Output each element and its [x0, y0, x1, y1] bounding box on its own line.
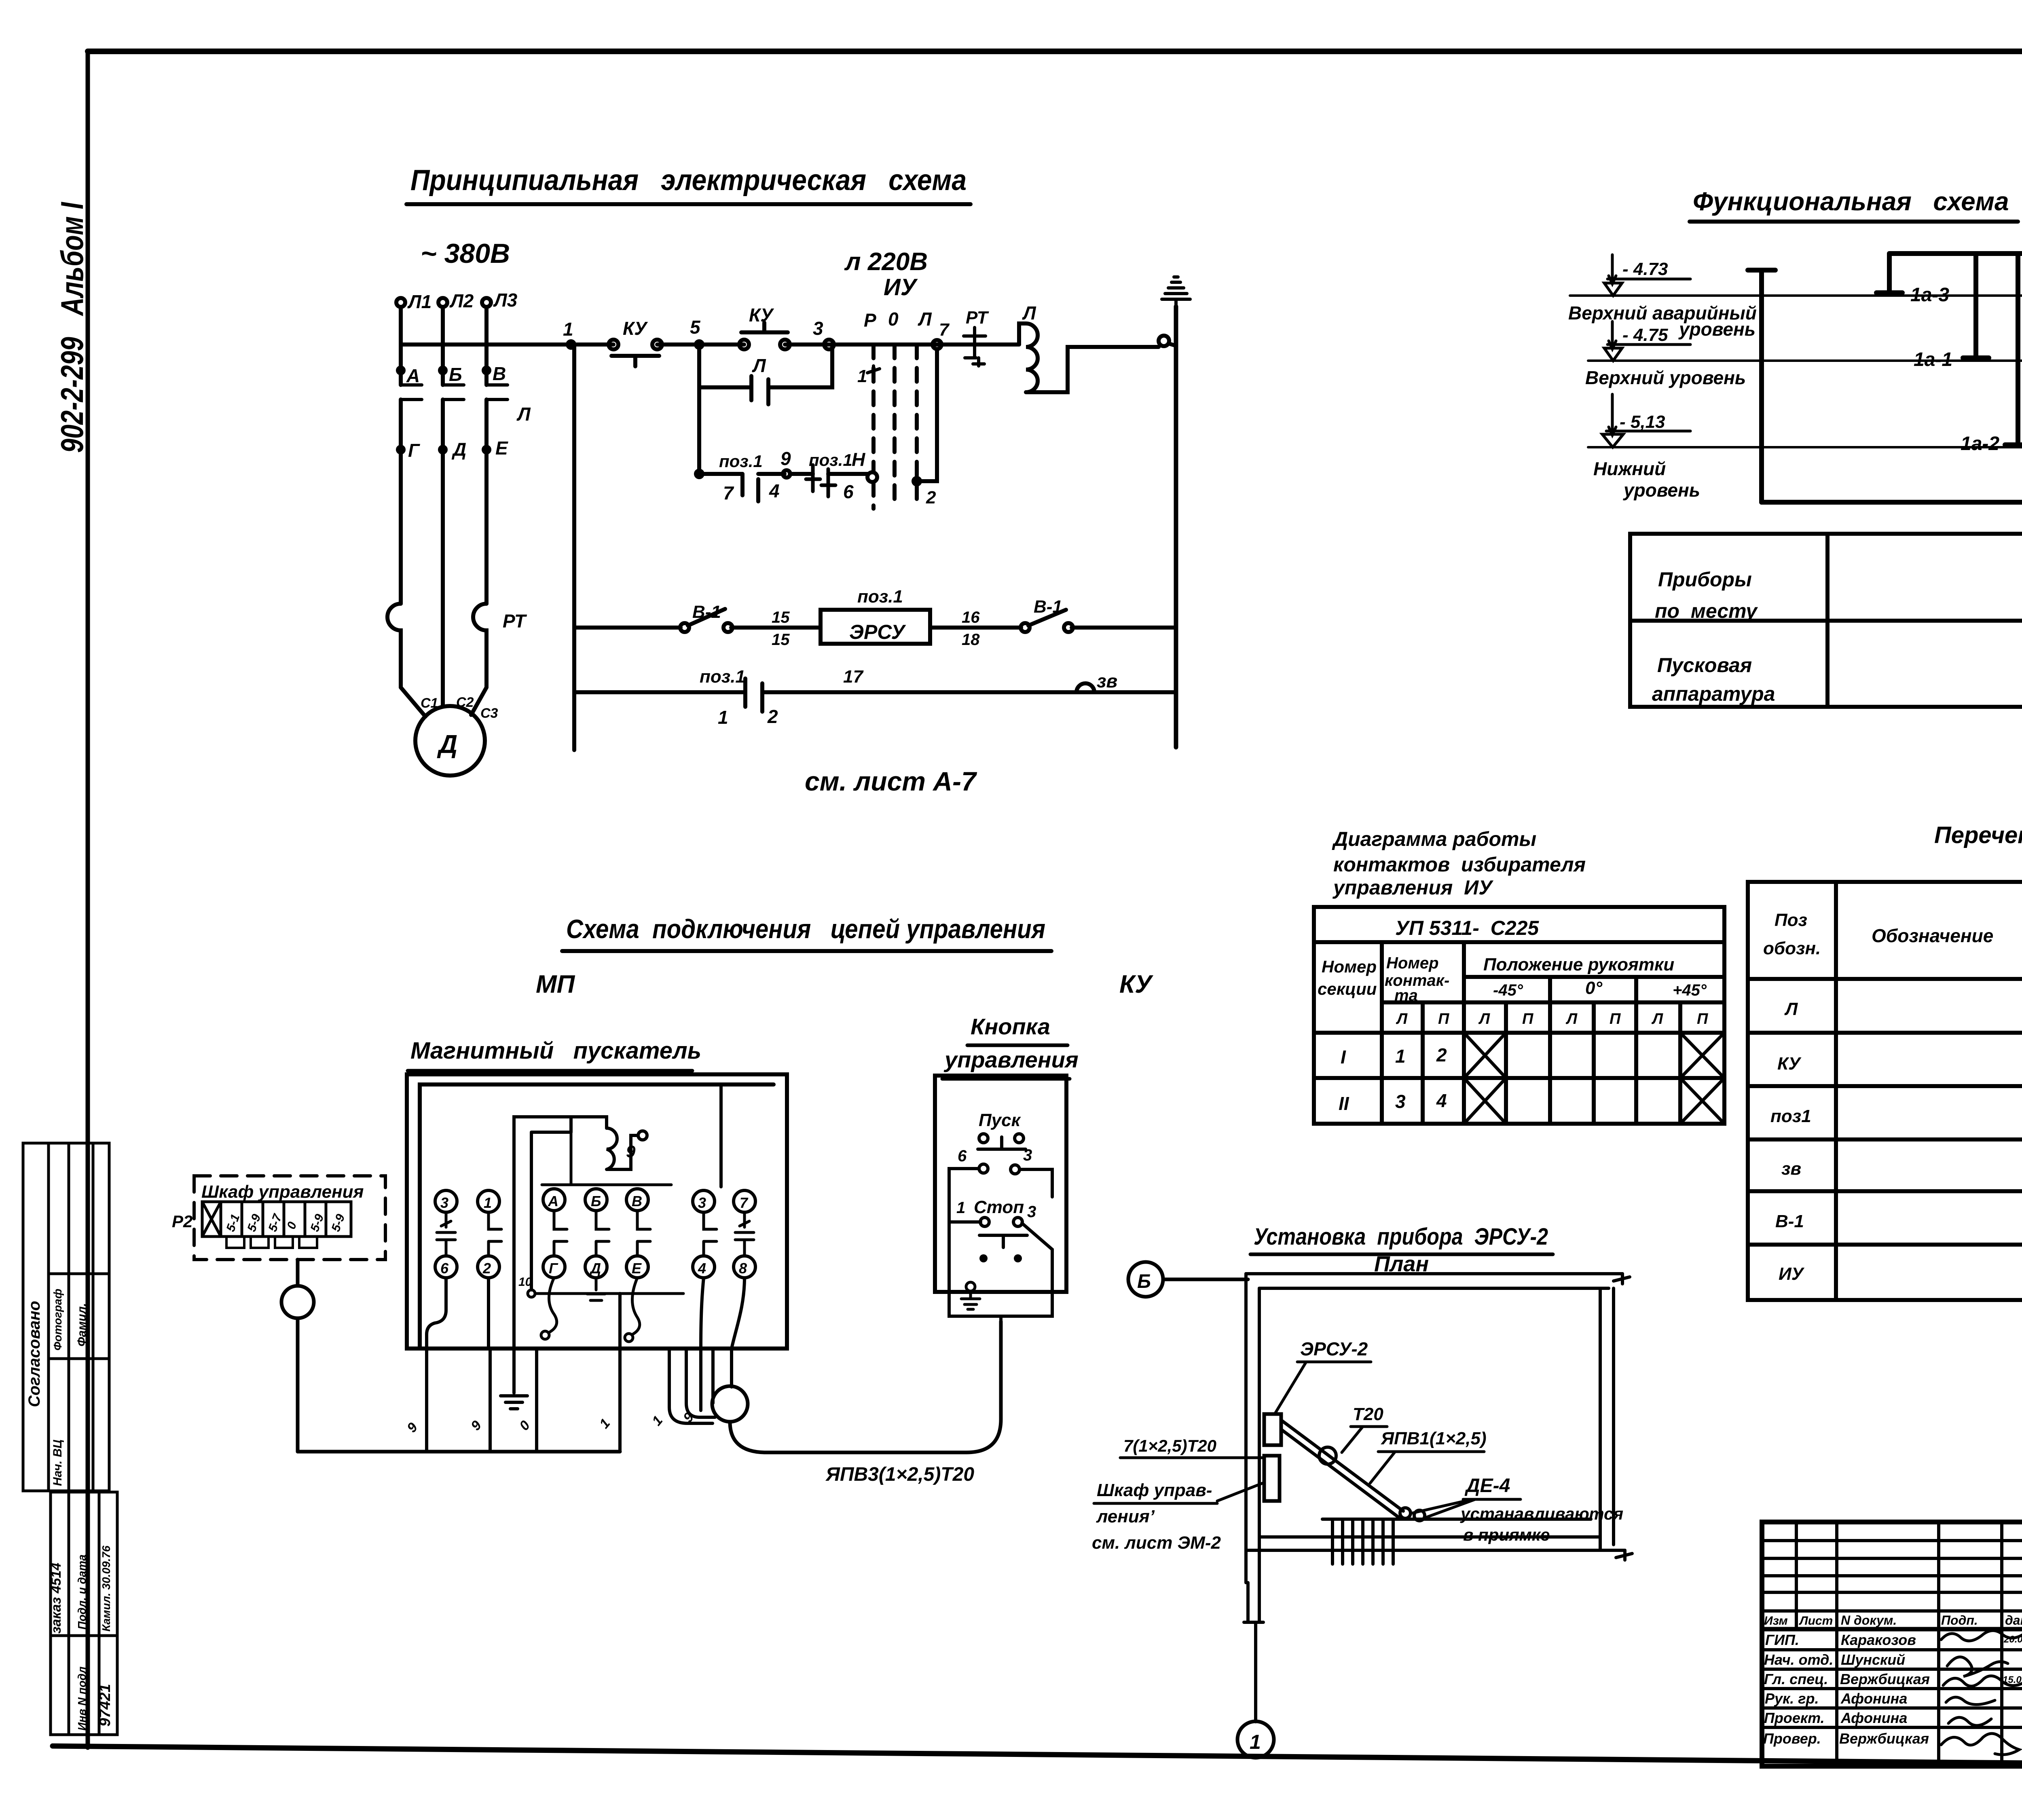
svg-text:2: 2: [1436, 1044, 1447, 1065]
svg-text:Г: Г: [549, 1260, 558, 1277]
svg-text:управления: управления: [943, 1047, 1079, 1072]
svg-text:в приямке: в приямке: [1463, 1525, 1550, 1544]
svg-text:Л: Л: [1565, 1010, 1578, 1027]
svg-text:зв: зв: [1781, 1159, 1801, 1179]
node G D E: [398, 438, 508, 461]
svg-text:Р: Р: [864, 310, 876, 331]
MP terminals middle triple: [543, 1189, 650, 1278]
svg-text:5-9: 5-9: [329, 1212, 348, 1233]
svg-text:Нач. отд.: Нач. отд.: [1764, 1651, 1833, 1668]
svg-text:В: В: [493, 363, 506, 384]
svg-text:1: 1: [484, 1194, 492, 1211]
title block grid: [1762, 1522, 2022, 1766]
svg-text:6: 6: [440, 1260, 449, 1277]
thermal relay contact RT: [964, 308, 989, 366]
pit floor line: [1322, 1518, 1591, 1521]
svg-text:5-9: 5-9: [245, 1212, 264, 1233]
svg-text:9: 9: [780, 448, 791, 469]
svg-text:Д: Д: [589, 1260, 601, 1277]
internal bus line 10: [518, 1275, 683, 1297]
KU wiring loop: [949, 1169, 1052, 1321]
svg-text:поз1: поз1: [1770, 1106, 1811, 1126]
svg-text:Гл. спец.: Гл. спец.: [1764, 1671, 1828, 1687]
drain pipe bottom left: [1244, 1582, 1263, 1622]
svg-text:Стоп: Стоп: [974, 1197, 1024, 1217]
label DE-4 with leaders: [1412, 1475, 1521, 1517]
svg-text:обозн.: обозн.: [1763, 939, 1821, 958]
svg-text:Е: Е: [632, 1260, 642, 1277]
svg-text:Афонина: Афонина: [1840, 1690, 1907, 1707]
wire right rail: [1174, 307, 1178, 747]
svg-text:КУ: КУ: [1119, 970, 1153, 998]
svg-text:15: 15: [772, 631, 790, 649]
svg-text:0: 0: [285, 1220, 300, 1231]
svg-text:18: 18: [962, 631, 980, 649]
svg-text:1: 1: [718, 707, 728, 728]
row L: starter PME-132: [1784, 981, 2022, 1019]
svg-text:Пуск: Пуск: [979, 1110, 1022, 1130]
svg-text:2: 2: [926, 488, 936, 507]
svg-text:аппаратура: аппаратура: [1652, 683, 1775, 705]
svg-text:5-1: 5-1: [224, 1212, 243, 1233]
contact poz.1 in bell row: [700, 667, 778, 728]
switch V-1 right: [1021, 597, 1073, 632]
personnel rows: [1763, 1632, 1930, 1747]
svg-text:Магнитный пускатель: Магнитный пускатель: [410, 1038, 701, 1064]
svg-text:Л: Л: [1022, 302, 1036, 323]
node 5: [690, 317, 702, 348]
svg-text:Д: Д: [451, 439, 466, 460]
wires exiting MP bottom: [427, 1349, 732, 1452]
svg-text:дата: дата: [2005, 1613, 2022, 1628]
svg-text:Изм: Изм: [1764, 1614, 1788, 1628]
svg-text:КУ: КУ: [623, 318, 648, 339]
svg-text:РТ: РТ: [966, 308, 989, 328]
level line upper emergency: [1568, 255, 2022, 340]
svg-text:- 4.73: - 4.73: [1622, 259, 1668, 279]
svg-text:Л3: Л3: [493, 290, 518, 311]
svg-text:Перечень элементов: Перечень элементов: [1934, 822, 2022, 848]
svg-text:Пусковая: Пусковая: [1657, 654, 1752, 676]
svg-text:Лист: Лист: [1799, 1614, 1833, 1628]
svg-text:Положение рукоятки: Положение рукоятки: [1483, 955, 1674, 974]
svg-text:0: 0: [516, 1418, 533, 1433]
label Шкаф управления see ЭМ-2: [1092, 1480, 1263, 1553]
svg-text:17: 17: [843, 667, 864, 687]
svg-text:1а-2: 1а-2: [1961, 433, 1999, 454]
push button KU: [739, 304, 790, 349]
svg-text:Нач. ВЦ: Нач. ВЦ: [51, 1440, 64, 1486]
svg-text:зв: зв: [1097, 670, 1117, 691]
svg-text:3: 3: [440, 1194, 448, 1211]
label ERSU-2 with leader: [1275, 1338, 1371, 1414]
element list table: [1748, 882, 2022, 1300]
thermal relay RT heaters: [387, 604, 527, 687]
contactor L main contacts A B V: [398, 363, 531, 425]
tank left support post: [1748, 270, 1775, 502]
svg-text:РТ: РТ: [503, 611, 527, 632]
earth ground top right: [1162, 277, 1190, 307]
svg-text:Р2: Р2: [172, 1212, 192, 1231]
internal wiring verticals: [427, 1086, 745, 1349]
svg-text:9: 9: [404, 1420, 421, 1435]
svg-text:Л: Л: [752, 355, 766, 376]
spare terminals: [979, 1254, 1022, 1262]
diagram header text: [1332, 828, 1586, 899]
svg-text:поз.1: поз.1: [809, 450, 852, 469]
svg-text:97421: 97421: [97, 1684, 114, 1727]
svg-text:Шкаф управления: Шкаф управления: [201, 1182, 364, 1202]
svg-text:Номер: Номер: [1386, 954, 1439, 972]
svg-text:I: I: [1341, 1046, 1346, 1067]
wire bundle horizontal: [298, 1450, 620, 1454]
svg-text:Верхний уровень: Верхний уровень: [1585, 367, 1746, 388]
svg-text:поз.1: поз.1: [857, 587, 903, 607]
svg-text:Установка прибора ЭРСУ-2: Установка прибора ЭРСУ-2: [1254, 1224, 1548, 1250]
wire cabinet drop with pipe marker: [281, 1260, 314, 1452]
svg-text:уровень: уровень: [1623, 480, 1700, 501]
svg-text:Л: Л: [1784, 999, 1798, 1019]
title: Функциональная схема: [1690, 187, 2018, 222]
svg-text:Принципиальная электрическая: Принципиальная электрическая схема: [410, 164, 967, 197]
selector contact 1 on R link: [857, 309, 932, 386]
svg-text:та: та: [1394, 987, 1418, 1004]
svg-text:10: 10: [518, 1275, 532, 1289]
phase input terminals L1 L2 L3: [396, 290, 518, 312]
KU contacts 6 3: [958, 1146, 1032, 1174]
svg-text:см. лист А-7: см. лист А-7: [805, 766, 977, 796]
svg-text:ЭРСУ: ЭРСУ: [849, 621, 906, 643]
svg-text:ЯПВ3(1×2,5)Т20: ЯПВ3(1×2,5)Т20: [825, 1464, 974, 1485]
sensors DE-4: [1400, 1508, 1425, 1521]
switch KU (selector contact): [609, 318, 662, 366]
svg-text:Рук. гр.: Рук. гр.: [1765, 1690, 1819, 1707]
self-hold contact L branch: [699, 345, 832, 404]
svg-text:1: 1: [649, 1413, 666, 1429]
node 1: [563, 319, 574, 348]
svg-text:Шунский: Шунский: [1841, 1651, 1905, 1668]
svg-text:Л: Л: [1396, 1010, 1408, 1027]
svg-text:П: П: [1610, 1010, 1621, 1027]
label YaPV1 with leader: [1370, 1429, 1487, 1483]
svg-text:поз.1: поз.1: [700, 667, 745, 687]
signatures: [1941, 1630, 2022, 1754]
svg-text:0°: 0°: [1585, 978, 1602, 998]
loose wire under G: [549, 1278, 557, 1332]
svg-text:Нижний: Нижний: [1593, 458, 1666, 479]
svg-text:П: П: [1697, 1010, 1708, 1027]
svg-text:ИУ: ИУ: [884, 274, 918, 300]
svg-text:л 220В: л 220В: [844, 248, 928, 276]
svg-text:1: 1: [596, 1416, 613, 1431]
control bus wire: [401, 342, 1019, 347]
title: Установка прибора ЭРСУ-2: [1250, 1224, 1553, 1276]
svg-text:15: 15: [772, 609, 790, 626]
subtitle Кнопка управления: [942, 1014, 1079, 1079]
svg-text:управления ИУ: управления ИУ: [1332, 876, 1494, 899]
loose wire under E: [632, 1278, 640, 1334]
bell zv: [1074, 670, 1117, 692]
svg-text:Диаграмма работы: Диаграмма работы: [1332, 828, 1536, 850]
svg-text:Функциональная схема: Функциональная схема: [1693, 187, 2009, 216]
wire bell row: [574, 690, 1176, 694]
svg-text:Камил. 30.09.76: Камил. 30.09.76: [100, 1545, 112, 1632]
svg-text:ИУ: ИУ: [1779, 1264, 1805, 1284]
electrode 1a-1: [1914, 254, 1989, 370]
svg-text:+45°: +45°: [1673, 981, 1707, 999]
loose wire end circle E: [625, 1334, 633, 1342]
button KU box: [935, 1076, 1066, 1292]
svg-text:3: 3: [1395, 1091, 1406, 1112]
wire numbers on drops: [404, 1410, 697, 1435]
loose wire end circle G: [541, 1331, 549, 1339]
svg-text:Л: Л: [516, 404, 531, 425]
subtitle Магнитный пускатель: [408, 1038, 701, 1071]
cable junction circle: [712, 1386, 748, 1422]
svg-text:Подл. и дата: Подл. и дата: [76, 1554, 88, 1630]
ground symbol below MP: [501, 1385, 527, 1409]
svg-text:4: 4: [769, 480, 780, 501]
svg-text:-45°: -45°: [1493, 981, 1523, 999]
svg-text:6: 6: [958, 1147, 967, 1165]
svg-text:~ 380В: ~ 380В: [421, 238, 510, 269]
svg-text:1: 1: [857, 366, 867, 386]
svg-text:секции: секции: [1318, 979, 1377, 998]
svg-text:0: 0: [888, 309, 899, 330]
dates: [2003, 1634, 2022, 1685]
svg-text:7: 7: [939, 320, 950, 340]
svg-text:3: 3: [813, 318, 823, 339]
svg-text:Л: Л: [918, 309, 932, 330]
svg-text:С1: С1: [421, 695, 438, 711]
svg-text:5: 5: [690, 317, 701, 338]
svg-text:Вержбицкая: Вержбицкая: [1839, 1730, 1929, 1747]
svg-text:С3: С3: [480, 706, 498, 721]
svg-text:1: 1: [563, 319, 573, 340]
svg-text:Поз: Поз: [1775, 910, 1807, 930]
wire sensor bus: [1889, 251, 2022, 256]
motor D: [401, 687, 498, 776]
cabinet on wall: [1264, 1456, 1280, 1501]
MP terminals right pair: [693, 1190, 755, 1278]
row II: [1339, 1090, 1447, 1114]
room wall left: [1246, 1274, 1259, 1583]
svg-text:Б: Б: [591, 1193, 601, 1209]
row zv: bell ZVP-220: [1781, 1156, 2022, 1179]
wire phase L3: [484, 307, 489, 604]
svg-text:Л: Л: [1651, 1010, 1663, 1027]
svg-text:Афонина: Афонина: [1840, 1710, 1907, 1726]
section mark 1 circle: [1237, 1721, 1274, 1758]
svg-text:7(1×2,5)Т20: 7(1×2,5)Т20: [1123, 1436, 1216, 1455]
svg-text:контактов избирателя: контактов избирателя: [1333, 853, 1586, 876]
svg-text:Фотограф: Фотограф: [51, 1289, 64, 1351]
svg-text:Г: Г: [408, 440, 420, 461]
svg-text:Приборы: Приборы: [1658, 568, 1752, 591]
svg-text:902-2-299 Альбом I: 902-2-299 Альбом I: [54, 202, 90, 453]
room wall right: [1600, 1288, 1614, 1550]
svg-text:заказ 4514: заказ 4514: [49, 1563, 64, 1634]
svg-text:по месту: по месту: [1655, 600, 1758, 622]
label 7(1x2.5)T20 with leader: [1120, 1436, 1264, 1458]
svg-text:Схема подключения цепей упр: Схема подключения цепей управления: [566, 914, 1045, 944]
svg-text:ЯПВ1(1×2,5): ЯПВ1(1×2,5): [1381, 1429, 1487, 1448]
svg-text:КУ: КУ: [749, 304, 774, 326]
svg-text:Проект.: Проект.: [1764, 1710, 1825, 1726]
label устанавливаются в приямке: [1460, 1504, 1623, 1544]
svg-text:7: 7: [723, 482, 734, 503]
svg-text:9: 9: [626, 1142, 636, 1161]
selector dashed link R: [874, 345, 917, 509]
room wall bottom: [1246, 1537, 1632, 1560]
svg-text:В: В: [632, 1193, 642, 1209]
svg-text:Кнопка: Кнопка: [971, 1014, 1050, 1039]
row poz1: regulator ERSU-2: [1770, 1089, 2022, 1141]
conduit pipes to pit: [1281, 1420, 1403, 1517]
svg-text:N докум.: N докум.: [1841, 1613, 1897, 1628]
svg-text:Е: Е: [495, 438, 508, 459]
svg-text:ДЕ-4: ДЕ-4: [1464, 1475, 1510, 1497]
svg-text:поз.1: поз.1: [719, 452, 763, 471]
svg-text:П: П: [1438, 1010, 1449, 1027]
tank bottom: [1762, 500, 2022, 505]
wire numbers 16/18: [962, 609, 980, 649]
terminal 0: [1159, 336, 1176, 346]
title: Принципиальная электрическая схема: [406, 164, 971, 204]
svg-text:уровень: уровень: [1678, 319, 1756, 340]
svg-text:МП: МП: [536, 970, 575, 998]
starter MP box: [407, 1074, 787, 1349]
svg-text:4: 4: [1436, 1090, 1447, 1111]
MP terminals left pair: [435, 1190, 501, 1278]
room wall top: [1246, 1274, 1630, 1288]
label T20 with leader: [1342, 1404, 1387, 1452]
svg-text:- 5,13: - 5,13: [1620, 412, 1665, 432]
svg-text:Б: Б: [1137, 1271, 1151, 1292]
switch V-1 left: [680, 602, 732, 632]
svg-text:Провер.: Провер.: [1763, 1730, 1821, 1747]
svg-text:5-9: 5-9: [308, 1212, 327, 1233]
electrode 1a-2: [1961, 254, 2022, 454]
selector table UP5311-S225: [1314, 907, 1724, 1124]
svg-text:Вержбицкая: Вержбицкая: [1840, 1671, 1930, 1687]
KU ground terminal: [961, 1282, 980, 1309]
wire ERSU row: [574, 626, 1176, 630]
pit grate hatching: [1332, 1521, 1393, 1564]
svg-text:Т20: Т20: [1353, 1404, 1383, 1424]
wire phase L2: [441, 307, 445, 706]
svg-text:Подп.: Подп.: [1941, 1613, 1978, 1628]
svg-text:ЭРСУ-2: ЭРСУ-2: [1300, 1338, 1368, 1359]
row KU: control button: [1777, 1036, 2022, 1076]
svg-text:2: 2: [767, 706, 778, 727]
wire numbers 15/15: [772, 609, 790, 649]
svg-text:3: 3: [698, 1194, 706, 1211]
svg-text:8: 8: [739, 1260, 747, 1277]
svg-text:3: 3: [1027, 1203, 1036, 1221]
svg-text:Инв N подл: Инв N подл: [76, 1666, 88, 1731]
wire phase L1: [399, 307, 403, 604]
row IU: selector UP5311: [1779, 1249, 2022, 1287]
wire control left rail: [572, 345, 576, 750]
regulator ERSU box poz.1: [821, 587, 930, 644]
svg-text:Номер: Номер: [1322, 957, 1377, 976]
selector contact 2 wire: [914, 320, 950, 507]
svg-text:Фамил.: Фамил.: [75, 1303, 89, 1347]
svg-text:Л2: Л2: [449, 290, 474, 311]
svg-text:Обозначение: Обозначение: [1872, 925, 1993, 946]
svg-text:9: 9: [468, 1418, 484, 1433]
terminal 3: [813, 318, 834, 349]
title block outer: [1762, 1522, 2022, 1766]
contactor coil L: [1019, 302, 1159, 392]
svg-text:- 4.75: - 4.75: [1622, 325, 1668, 345]
svg-text:Б: Б: [449, 364, 462, 385]
svg-text:А: А: [548, 1193, 558, 1209]
section mark B circle: [1128, 1262, 1248, 1297]
level contacts branch poz.1: [696, 387, 877, 503]
svg-text:Л1: Л1: [407, 291, 431, 312]
cable to KU: [730, 1321, 1001, 1452]
svg-text:ления’: ления’: [1096, 1507, 1155, 1526]
Stop button: [956, 1199, 1036, 1247]
svg-text:1: 1: [1250, 1731, 1261, 1753]
svg-text:П: П: [1522, 1010, 1533, 1027]
svg-text:6: 6: [843, 481, 854, 502]
table headers: [1763, 910, 2022, 958]
wire down to section mark 1: [1254, 1622, 1257, 1722]
svg-text:А: А: [406, 365, 420, 386]
device ERSU-2 on wall: [1264, 1414, 1281, 1445]
svg-text:ГИП.: ГИП.: [1765, 1632, 1799, 1648]
svg-text:Д: Д: [437, 729, 457, 759]
svg-text:см. лист ЭМ-2: см. лист ЭМ-2: [1092, 1533, 1221, 1553]
svg-text:1: 1: [1395, 1046, 1406, 1067]
svg-text:16: 16: [962, 609, 980, 626]
svg-text:КУ: КУ: [1777, 1054, 1802, 1074]
svg-text:В-1: В-1: [692, 602, 721, 622]
svg-text:2: 2: [482, 1260, 491, 1277]
revision header row: [1764, 1613, 2022, 1628]
svg-text:Каракозов: Каракозов: [1841, 1632, 1916, 1648]
svg-text:4: 4: [698, 1260, 706, 1277]
cabinet Шкаф управления dashed: [172, 1176, 385, 1260]
svg-text:В-1: В-1: [1034, 597, 1062, 617]
ground symbol inside MP: [587, 1278, 605, 1300]
svg-text:5-7: 5-7: [266, 1212, 285, 1233]
svg-text:С2: С2: [456, 695, 474, 710]
svg-text:1: 1: [956, 1199, 965, 1217]
svg-text:В-1: В-1: [1775, 1211, 1804, 1231]
electrode 1a-3: [1876, 254, 1949, 306]
svg-text:УП 5311- С225: УП 5311- С225: [1395, 917, 1539, 939]
Pusk button: [978, 1134, 1026, 1149]
row V-1: switch PVM2-10: [1775, 1192, 2022, 1242]
title: Схема подключения цепей управления: [562, 914, 1051, 951]
coil inside MP: [542, 1117, 671, 1185]
svg-text:Н: Н: [852, 449, 865, 470]
svg-text:Шкаф управ-: Шкаф управ-: [1097, 1480, 1212, 1500]
level line upper: [1585, 321, 2022, 388]
svg-text:Согласовано: Согласовано: [25, 1301, 43, 1407]
row I: [1341, 1044, 1447, 1067]
svg-text:3: 3: [1023, 1146, 1032, 1164]
margin approval table: [23, 1143, 109, 1491]
svg-text:II: II: [1339, 1093, 1349, 1114]
svg-text:Л: Л: [1478, 1010, 1490, 1027]
margin inventory table: [49, 1492, 117, 1735]
instruments location table: [1630, 534, 2022, 707]
